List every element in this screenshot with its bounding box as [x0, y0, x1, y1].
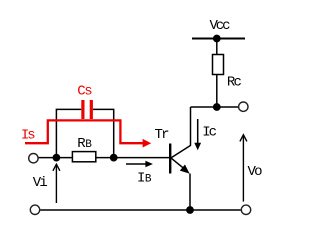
junction Vcc node: [213, 35, 221, 43]
svg-text:Vi: Vi: [33, 175, 48, 191]
label Rc: [227, 75, 242, 91]
junction emitter to rail: [186, 206, 194, 214]
current arrow Ic: [194, 119, 201, 150]
label Vo: [248, 164, 263, 180]
label Cs: [77, 84, 92, 100]
svg-text:RB: RB: [77, 136, 92, 152]
wire Vcc to Rc: [216, 39, 218, 55]
label Is: [21, 128, 36, 144]
junction collector node: [213, 103, 221, 111]
label RB: [77, 136, 92, 152]
label IB: [137, 171, 152, 187]
wire capacitor branch left: [56, 109, 81, 157]
label Vi: [33, 175, 48, 191]
svg-text:Ic: Ic: [202, 125, 217, 141]
wire collector vertical: [190, 107, 192, 146]
voltage arrow Vo: [240, 135, 247, 202]
capacitor Cs: [81, 100, 93, 119]
label Ic: [202, 125, 217, 141]
junction node B2: [110, 154, 118, 162]
svg-text:Cs: Cs: [77, 84, 92, 100]
svg-text:Tr: Tr: [155, 127, 170, 143]
label Vcc: [210, 18, 231, 34]
wire emitter vertical: [189, 174, 191, 211]
svg-text:Vcc: Vcc: [210, 18, 231, 34]
wire Rc to collector node: [216, 75, 218, 108]
resistor Rc: [213, 55, 224, 75]
wire capacitor branch right: [93, 109, 114, 157]
transistor Tr: [169, 144, 191, 174]
svg-text:Rc: Rc: [227, 75, 242, 91]
svg-text:Is: Is: [21, 128, 36, 144]
wire base main: [39, 157, 169, 159]
svg-text:IB: IB: [137, 171, 152, 187]
terminal output bottom: [241, 205, 250, 214]
terminal input bottom: [30, 205, 39, 214]
svg-text:Vo: Vo: [248, 164, 263, 180]
power rail Vcc: [192, 38, 245, 40]
terminal output top: [239, 102, 248, 111]
bottom rail: [40, 209, 241, 211]
terminal input top: [29, 154, 38, 163]
wire collector node to output terminal: [191, 106, 239, 108]
resistor RB: [72, 152, 95, 162]
voltage arrow Vi: [53, 164, 60, 203]
current arrow IB: [126, 161, 153, 168]
label Tr: [155, 127, 170, 143]
signal waveform Is: [25, 120, 151, 147]
junction node B1: [53, 154, 61, 162]
